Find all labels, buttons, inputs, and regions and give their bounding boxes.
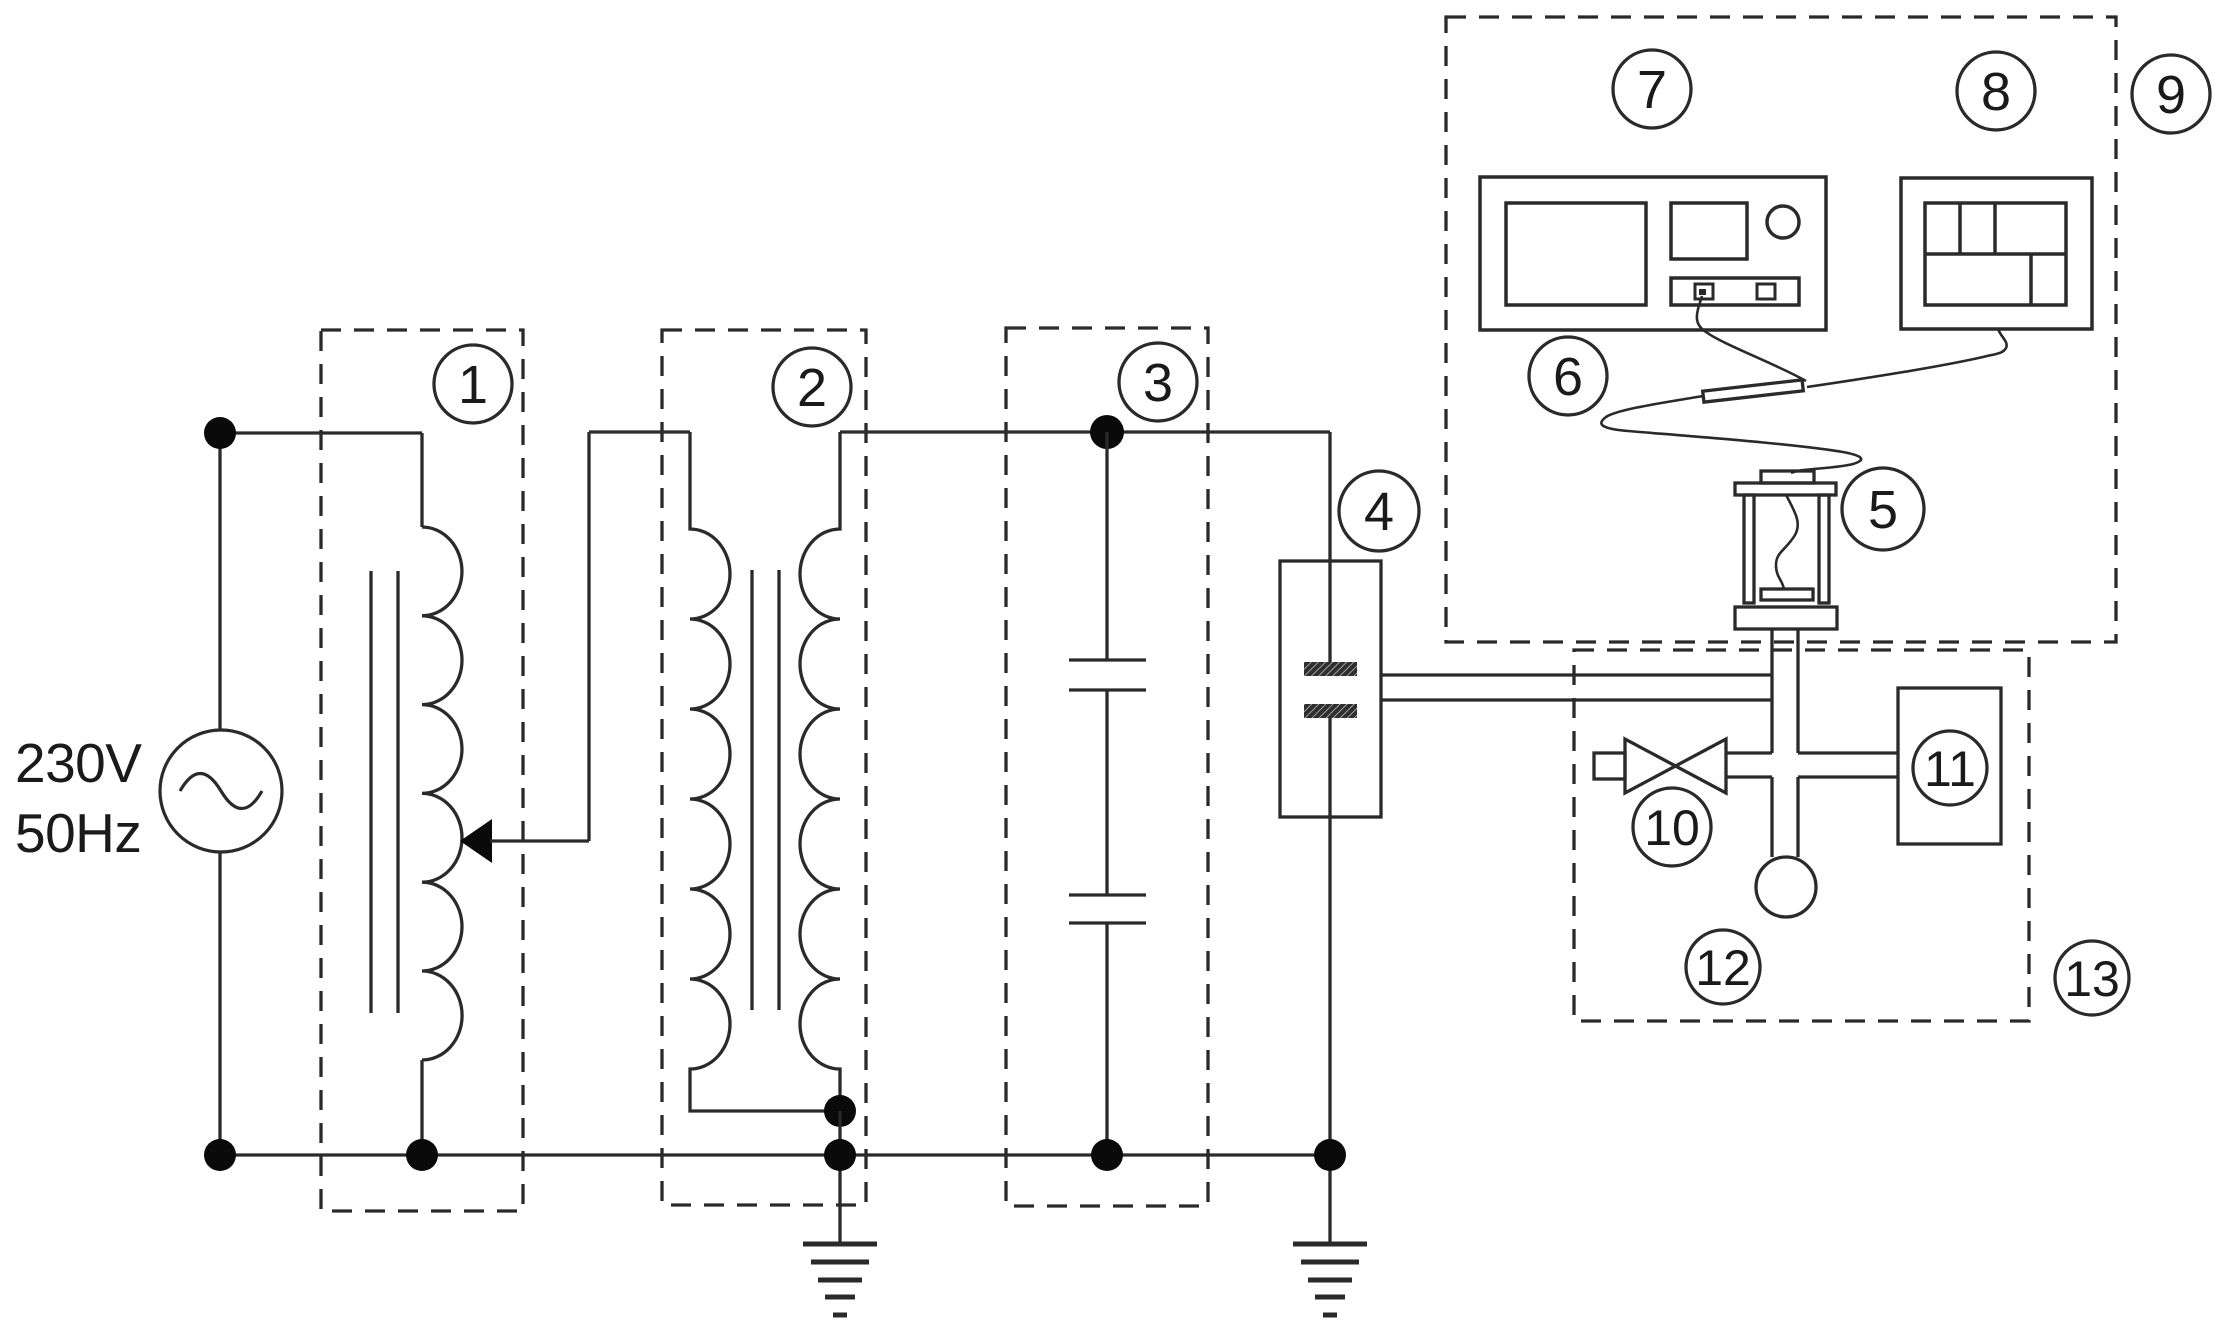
pump box 11 <box>1898 688 2001 844</box>
wire variac top <box>420 433 423 527</box>
capacitor C2 <box>1069 893 1146 896</box>
label circle 12 <box>1686 930 1760 1004</box>
label circle 7 <box>1613 50 1691 128</box>
svg-text:2: 2 <box>797 358 827 418</box>
instrument 8 panel <box>1925 203 2066 305</box>
svg-text:3: 3 <box>1143 353 1173 413</box>
wire bottom bus <box>220 1153 1330 1156</box>
cable from connector to sensor 5 <box>1601 396 1861 473</box>
wire source bottom <box>218 852 221 1155</box>
label circle 4 <box>1339 471 1419 551</box>
tube horizontal top <box>1726 751 1772 754</box>
valve 10 stub <box>1594 753 1625 779</box>
instrument 8 panel divider horizontal <box>1925 252 2066 256</box>
test cell upper electrode <box>1304 662 1357 676</box>
svg-text:9: 9 <box>2156 65 2186 125</box>
label 230V 50Hz <box>15 732 142 864</box>
instrument 7 screen <box>1506 203 1646 305</box>
wire divider lower <box>1105 923 1108 1155</box>
node divider bottom <box>1091 1139 1123 1171</box>
pipe upper from cell <box>1381 673 1772 676</box>
capacitor C1 <box>1069 658 1146 661</box>
node bottom left <box>204 1139 236 1171</box>
wire top left bus <box>220 431 422 434</box>
svg-text:7: 7 <box>1637 60 1667 120</box>
wire tap horizontal <box>490 839 589 842</box>
svg-text:50Hz: 50Hz <box>15 802 141 864</box>
wire divider middle <box>1105 690 1108 895</box>
svg-text:4: 4 <box>1364 482 1394 542</box>
svg-text:13: 13 <box>2064 951 2120 1007</box>
label circle 11 <box>1913 731 1987 805</box>
fiber connector 6 <box>1703 380 1804 402</box>
block 9 dashed box (measuring system) <box>1446 17 2116 642</box>
wire cell bottom <box>1328 718 1331 1244</box>
svg-text:11: 11 <box>1924 741 1976 797</box>
instrument 7 display window <box>1671 203 1747 259</box>
wire top bus right <box>840 430 1330 433</box>
tube horizontal bottom <box>1726 775 1772 778</box>
node divider top <box>1090 415 1124 449</box>
svg-text:12: 12 <box>1695 940 1751 996</box>
block 13 dashed box (gas system) <box>1574 650 2029 1021</box>
label circle 8 <box>1957 52 2035 130</box>
variac core lines <box>369 571 372 1013</box>
ground under test cell <box>1293 1244 1367 1315</box>
sensor 5 left column <box>1744 495 1754 603</box>
test cell lower electrode <box>1304 704 1357 718</box>
wire source top <box>218 433 221 730</box>
node transformer bus <box>824 1139 856 1171</box>
svg-text:10: 10 <box>1644 800 1700 856</box>
label circle 10 <box>1633 788 1711 866</box>
transformer primary winding <box>690 432 840 1111</box>
instrument 7 connector bar <box>1671 278 1799 305</box>
sensor 5 sample squiggle <box>1776 495 1798 590</box>
label circle 2 <box>773 348 851 426</box>
instrument 8 panel divider v2 <box>1993 203 1997 254</box>
instrument 8 panel divider v1 <box>1958 203 1962 254</box>
instrument 8 chassis <box>1901 178 2092 329</box>
instrument 8 panel divider v3 <box>2029 254 2033 305</box>
instrument 7 port 1 pin <box>1699 289 1706 295</box>
variac tap arrow <box>460 819 492 863</box>
wire tap to transformer <box>589 430 690 433</box>
svg-text:1: 1 <box>458 355 488 415</box>
label circle 9 <box>2132 55 2210 133</box>
node variac bottom <box>406 1139 438 1171</box>
pressure gauge 12 <box>1756 857 1816 917</box>
ground under block 2 <box>803 1244 877 1315</box>
wire divider upper <box>1105 432 1108 660</box>
transformer secondary winding <box>800 432 840 1111</box>
block 1 dashed box (variac) <box>321 330 523 1211</box>
sensor 5 right column <box>1819 495 1829 603</box>
sensor 5 top flange <box>1735 483 1836 495</box>
wire bus down to test cell <box>1328 432 1331 664</box>
cable from instrument 7 <box>1697 296 1806 381</box>
block 3 dashed box (capacitive divider) <box>1006 328 1208 1206</box>
wire transformer to bus <box>838 1111 841 1244</box>
test cell body <box>1280 561 1381 817</box>
sensor 5 inner bar <box>1761 589 1813 600</box>
label circle 3 <box>1119 343 1197 421</box>
sensor 5 top tab <box>1761 471 1814 483</box>
voltage source symbol <box>160 730 282 852</box>
svg-text:6: 6 <box>1553 347 1583 407</box>
tube vertical right <box>1796 629 1799 753</box>
label circle 1 <box>434 345 512 423</box>
svg-text:5: 5 <box>1868 480 1898 540</box>
variac winding <box>422 527 462 1060</box>
svg-text:8: 8 <box>1981 62 2011 122</box>
cable from instrument 8 <box>1807 329 2007 387</box>
sensor 5 base <box>1735 607 1837 629</box>
instrument 7 chassis <box>1480 177 1826 330</box>
block 2 dashed box (HV transformer) <box>662 330 866 1205</box>
instrument 7 port 2 <box>1757 284 1775 299</box>
valve 10 bowtie <box>1625 739 1726 793</box>
instrument 7 port 1 <box>1695 284 1713 299</box>
tube vertical left <box>1770 629 1773 753</box>
wire variac bottom <box>420 1060 423 1155</box>
node transformer bottom <box>824 1095 856 1127</box>
pipe lower from cell <box>1381 698 1772 701</box>
node cell bus <box>1314 1139 1346 1171</box>
instrument 7 knob <box>1767 206 1799 238</box>
svg-text:230V: 230V <box>15 732 142 794</box>
label circle 13 <box>2055 941 2129 1015</box>
node top left <box>204 417 236 449</box>
transformer core lines <box>750 570 753 1010</box>
label circle 6 <box>1529 337 1607 415</box>
wire tap vertical <box>587 432 590 841</box>
label circle 5 <box>1842 468 1924 550</box>
